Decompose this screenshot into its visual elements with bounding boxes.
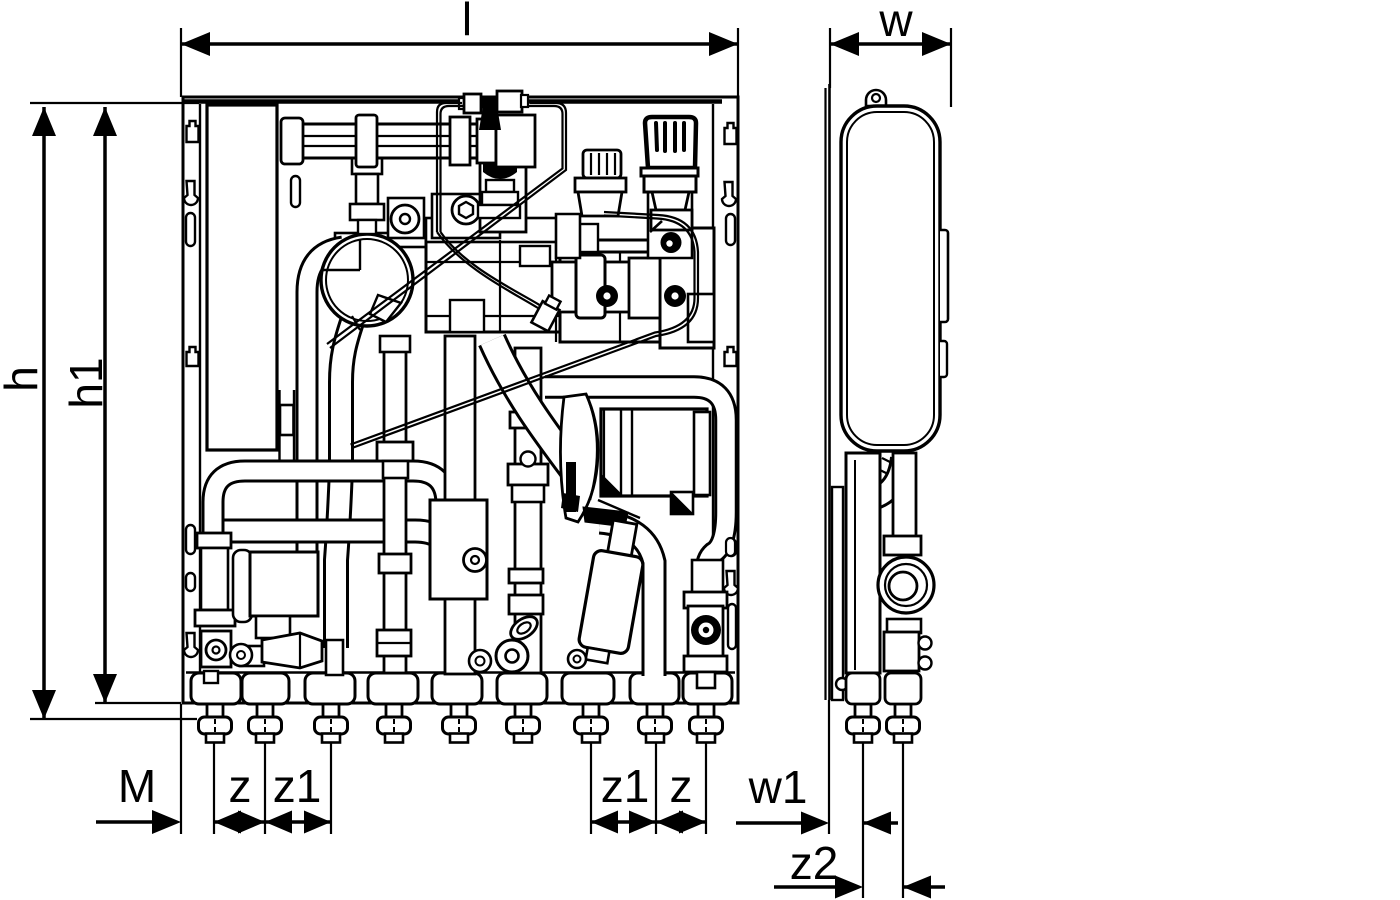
svg-text:h: h [0, 366, 47, 392]
svg-text:z2: z2 [790, 837, 839, 889]
svg-text:w1: w1 [748, 761, 808, 813]
svg-text:z1: z1 [601, 760, 650, 812]
svg-text:l: l [462, 0, 472, 45]
svg-text:z1: z1 [273, 760, 322, 812]
svg-text:z: z [229, 760, 252, 812]
svg-text:z: z [670, 760, 693, 812]
svg-text:M: M [118, 760, 156, 812]
svg-text:h1: h1 [60, 357, 112, 408]
svg-text:w: w [878, 0, 913, 46]
